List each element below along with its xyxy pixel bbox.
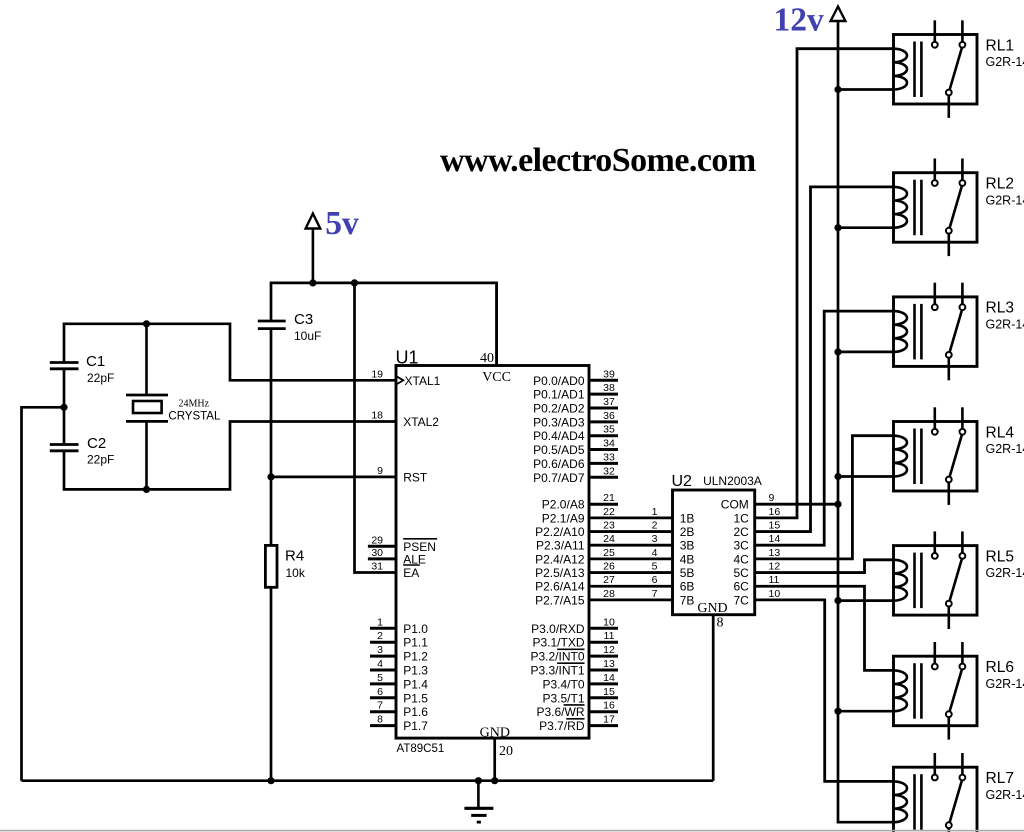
svg-text:P3.0/RXD: P3.0/RXD (531, 622, 585, 636)
svg-text:11: 11 (604, 630, 615, 642)
wire U2 pin 11 (6C) to RL6 coil (755, 586, 894, 670)
wire P2.1/A9 (pin 22) to U2 pin 1 (589, 516, 673, 519)
node ground symbol junction (475, 777, 482, 784)
svg-text:P3.3/INT1: P3.3/INT1 (530, 664, 584, 678)
svg-text:P3.5/T1: P3.5/T1 (542, 691, 584, 705)
faint bottom border line (0, 830, 1024, 832)
svg-text:P3.7/RD: P3.7/RD (539, 719, 585, 733)
svg-text:10: 10 (769, 588, 781, 600)
svg-text:16: 16 (603, 700, 615, 712)
svg-text:3C: 3C (733, 539, 749, 553)
svg-text:5C: 5C (733, 566, 749, 580)
svg-text:13: 13 (769, 547, 781, 559)
svg-text:2: 2 (652, 520, 658, 532)
crystal X1 24MHz (126, 324, 168, 490)
svg-text:4: 4 (652, 547, 658, 559)
wire P2.7/A15 (pin 28) to U2 pin 7 (589, 598, 673, 601)
svg-text:2B: 2B (680, 525, 695, 539)
node crystal top junction (143, 320, 150, 327)
svg-text:24MHz: 24MHz (179, 398, 210, 409)
svg-text:www.electroSome.com: www.electroSome.com (440, 142, 756, 179)
svg-text:39: 39 (603, 368, 615, 380)
svg-text:P0.5/AD5: P0.5/AD5 (533, 443, 585, 457)
svg-text:P2.2/A10: P2.2/A10 (535, 525, 585, 539)
pin P0.7/AD7 (pin 32) (589, 476, 618, 479)
svg-text:P0.6/AD6: P0.6/AD6 (533, 457, 585, 471)
svg-text:10uF: 10uF (294, 329, 321, 343)
svg-text:P2.4/A12: P2.4/A12 (535, 552, 585, 566)
svg-text:3: 3 (377, 644, 383, 656)
wire 12v bus to RL5 coil bottom (838, 599, 894, 602)
svg-text:12: 12 (603, 644, 615, 656)
svg-text:RL2: RL2 (986, 176, 1014, 193)
svg-text:RL5: RL5 (986, 548, 1014, 565)
svg-text:26: 26 (603, 561, 615, 573)
wire U2 pin 16 (1C) to RL1 coil (755, 49, 894, 518)
svg-text:RL6: RL6 (986, 659, 1014, 676)
node crystal bottom junction (143, 486, 150, 493)
svg-text:5: 5 (377, 672, 383, 684)
pin 20 GND wire (493, 738, 496, 781)
wire 5v rail (271, 283, 497, 366)
svg-text:U1: U1 (396, 348, 419, 368)
relay RL2 G2R-14 (894, 159, 978, 257)
wire 12v bus to RL1 coil bottom (838, 88, 894, 91)
svg-text:P0.7/AD7: P0.7/AD7 (533, 471, 585, 485)
resistor R4 (265, 545, 277, 587)
svg-text:11: 11 (769, 574, 780, 586)
pin P3.5/T1 (pin 15) (589, 696, 618, 699)
wire C1 to C2 (63, 369, 66, 445)
relay RL5 G2R-14 (894, 531, 978, 629)
capacitor C1 (50, 363, 79, 369)
wire 12v bus (838, 21, 894, 822)
relay RL1 G2R-14 (893, 20, 977, 118)
wire P2.6/A14 (pin 27) to U2 pin 6 (589, 585, 673, 588)
svg-text:VCC: VCC (482, 370, 511, 385)
svg-text:30: 30 (371, 547, 383, 559)
svg-text:P3.4/T0: P3.4/T0 (542, 677, 584, 691)
svg-text:G2R-14: G2R-14 (986, 566, 1024, 580)
pin P1.1 (pin 2) (370, 641, 396, 644)
svg-text:P0.4/AD4: P0.4/AD4 (533, 429, 585, 443)
wire crystal top rail (64, 324, 396, 381)
svg-text:G2R-14: G2R-14 (986, 55, 1024, 69)
svg-text:C2: C2 (87, 435, 106, 452)
svg-text:2: 2 (377, 630, 383, 642)
pin COM (pin 9) wire to 12v bus (755, 503, 838, 506)
wire R4 to ground rail (270, 587, 273, 780)
svg-text:P0.0/AD0: P0.0/AD0 (533, 374, 585, 388)
pin P1.2 (pin 3) (370, 655, 396, 658)
svg-text:P2.5/A13: P2.5/A13 (535, 566, 585, 580)
pin P1.5 (pin 6) (370, 696, 396, 699)
relay RL4 G2R-14 (894, 407, 978, 505)
pin P1.0 (pin 1) (370, 627, 396, 630)
relay RL7 G2R-14 (894, 753, 978, 832)
svg-text:28: 28 (603, 588, 615, 600)
svg-text:P1.7: P1.7 (403, 719, 428, 733)
svg-text:EA: EA (403, 566, 419, 580)
svg-text:U2: U2 (672, 473, 693, 490)
svg-text:8: 8 (377, 714, 383, 726)
wire P2.2/A10 (pin 23) to U2 pin 2 (589, 530, 673, 533)
svg-text:7: 7 (652, 588, 658, 600)
svg-text:P3.1/TXD: P3.1/TXD (532, 636, 584, 650)
svg-text:3: 3 (652, 533, 658, 545)
wire U2 pin 13 (4C) to RL4 coil (755, 436, 894, 559)
svg-text:2C: 2C (733, 525, 749, 539)
svg-text:8: 8 (717, 616, 724, 631)
pin P3.2/INT0 (pin 12) (589, 655, 618, 658)
svg-text:6C: 6C (733, 580, 749, 594)
svg-text:24: 24 (603, 533, 615, 545)
svg-text:31: 31 (371, 561, 383, 573)
svg-text:7C: 7C (733, 593, 749, 607)
svg-text:P1.1: P1.1 (403, 636, 428, 650)
svg-text:14: 14 (769, 533, 781, 545)
svg-text:20: 20 (499, 744, 513, 759)
pin P1.7 (pin 8) (370, 724, 396, 727)
svg-text:13: 13 (603, 658, 615, 670)
pin 40 VCC wire (495, 283, 498, 366)
svg-text:P0.3/AD3: P0.3/AD3 (533, 415, 585, 429)
svg-text:36: 36 (603, 410, 615, 422)
pin P3.0/RXD (pin 10) (589, 627, 618, 630)
svg-text:RL3: RL3 (986, 300, 1014, 317)
svg-text:14: 14 (603, 672, 615, 684)
svg-text:5B: 5B (680, 566, 695, 580)
svg-text:34: 34 (603, 438, 615, 450)
power symbol 12v (831, 7, 846, 22)
svg-text:G2R-14: G2R-14 (986, 677, 1024, 691)
svg-text:P2.7/A15: P2.7/A15 (535, 593, 585, 607)
svg-text:12: 12 (769, 561, 781, 573)
pin P1.6 (pin 7) (370, 710, 396, 713)
svg-text:P1.4: P1.4 (403, 677, 428, 691)
svg-text:1: 1 (377, 616, 383, 628)
svg-text:6B: 6B (680, 580, 695, 594)
svg-text:7: 7 (377, 700, 383, 712)
capacitor C2 (50, 445, 79, 451)
svg-text:33: 33 (603, 451, 615, 463)
svg-text:P3.2/INT0: P3.2/INT0 (530, 650, 584, 664)
pin P0.1/AD1 (pin 38) (589, 393, 618, 396)
svg-text:G2R-14: G2R-14 (986, 442, 1024, 456)
wire crystal bottom rail (64, 422, 396, 490)
node RST junction (267, 473, 274, 480)
svg-text:G2R-14: G2R-14 (986, 193, 1024, 207)
wire 12v bus to RL6 coil bottom (838, 710, 894, 713)
wire 12v bus to RL2 coil bottom (838, 226, 894, 229)
relay RL6 G2R-14 (894, 642, 978, 740)
wire C3 to RST junction to R4 (270, 329, 273, 546)
capacitor C3 (258, 321, 286, 329)
svg-text:4C: 4C (733, 552, 749, 566)
svg-text:27: 27 (603, 574, 615, 586)
svg-text:P0.2/AD2: P0.2/AD2 (533, 402, 585, 416)
svg-text:G2R-14: G2R-14 (986, 788, 1024, 802)
svg-text:23: 23 (603, 520, 615, 532)
pin PSEN (368, 545, 396, 548)
svg-text:32: 32 (603, 465, 615, 477)
svg-text:P2.3/A11: P2.3/A11 (536, 539, 585, 553)
svg-text:XTAL1: XTAL1 (405, 374, 441, 388)
relay RL3 G2R-14 (894, 283, 978, 381)
node U1 GND junction (491, 777, 498, 784)
svg-text:RL4: RL4 (986, 424, 1015, 441)
svg-text:22pF: 22pF (87, 453, 114, 467)
svg-text:GND: GND (697, 601, 727, 616)
svg-text:9: 9 (769, 492, 775, 504)
power symbol 5v (306, 214, 321, 283)
svg-text:1B: 1B (680, 511, 695, 525)
svg-text:10k: 10k (286, 566, 306, 580)
svg-text:1: 1 (652, 506, 658, 518)
wire 5v to EA pin (355, 283, 397, 573)
svg-text:38: 38 (603, 382, 615, 394)
svg-text:CRYSTAL: CRYSTAL (168, 411, 221, 423)
svg-text:P2.6/A14: P2.6/A14 (535, 580, 585, 594)
svg-text:R4: R4 (285, 548, 304, 565)
svg-text:16: 16 (769, 506, 781, 518)
pin ALE (368, 557, 396, 560)
node EA drop junction (351, 279, 358, 286)
svg-text:P0.1/AD1: P0.1/AD1 (533, 388, 585, 402)
pin P0.2/AD2 (pin 37) (589, 407, 618, 410)
ic U2 ULN2003A body (673, 490, 755, 615)
node COM 12v bus junction (834, 501, 841, 508)
node C1 C2 midpoint (60, 404, 67, 411)
svg-text:RL1: RL1 (986, 37, 1014, 54)
svg-text:4: 4 (377, 658, 383, 670)
svg-text:ULN2003A: ULN2003A (703, 474, 762, 488)
svg-text:12v: 12v (773, 2, 824, 39)
svg-text:P1.5: P1.5 (403, 691, 428, 705)
node 5v arrow junction (309, 279, 316, 286)
svg-text:COM: COM (721, 498, 749, 512)
wire 12v bus to RL4 coil bottom (838, 475, 894, 478)
svg-text:19: 19 (371, 368, 383, 380)
pin P1.3 (pin 4) (370, 669, 396, 672)
pin P3.1/TXD (pin 11) (589, 641, 618, 644)
svg-text:C3: C3 (294, 311, 313, 328)
pin 8 GND of U2 (712, 615, 715, 781)
pin P0.0/AD0 (pin 39) (589, 379, 618, 382)
svg-text:9: 9 (377, 465, 383, 477)
svg-text:7B: 7B (680, 593, 695, 607)
svg-text:RST: RST (403, 470, 428, 484)
svg-text:P1.3: P1.3 (403, 664, 428, 678)
svg-text:5: 5 (652, 561, 658, 573)
svg-text:1C: 1C (733, 511, 749, 525)
svg-text:AT89C51: AT89C51 (397, 743, 445, 755)
pin P3.4/T0 (pin 14) (589, 682, 618, 685)
svg-text:P1.6: P1.6 (403, 705, 428, 719)
svg-text:10: 10 (603, 616, 615, 628)
pin P0.6/AD6 (pin 33) (589, 462, 618, 465)
wire U2 pin 15 (2C) to RL2 coil (755, 187, 894, 532)
wire RST (271, 476, 396, 479)
svg-text:6: 6 (652, 574, 658, 586)
pin P3.7/RD (pin 17) (589, 724, 618, 727)
svg-text:40: 40 (480, 351, 494, 366)
pin P3.6/WR (pin 16) (589, 710, 618, 713)
wire U2 pin 10 (7C) to RL7 coil (755, 600, 894, 782)
svg-text:P3.6/WR: P3.6/WR (536, 705, 584, 719)
svg-text:4B: 4B (680, 552, 695, 566)
svg-text:P1.0: P1.0 (403, 622, 428, 636)
svg-text:22: 22 (603, 506, 615, 518)
wire P2.3/A11 (pin 24) to U2 pin 3 (589, 544, 673, 547)
wire 12v bus to RL3 coil bottom (838, 351, 894, 354)
wire U2 pin 12 (5C) to RL5 coil (755, 560, 894, 573)
svg-text:5v: 5v (325, 205, 359, 242)
svg-text:RL7: RL7 (986, 770, 1014, 787)
svg-text:35: 35 (603, 424, 615, 436)
pin P1.4 (pin 5) (370, 682, 396, 685)
svg-text:22pF: 22pF (87, 371, 114, 385)
ground symbol (464, 781, 493, 822)
svg-text:C1: C1 (86, 353, 105, 370)
svg-text:P2.1/A9: P2.1/A9 (542, 511, 585, 525)
svg-text:GND: GND (480, 725, 510, 740)
pin XTAL1 with clock arrow (397, 376, 404, 384)
wire U2 pin 14 (3C) to RL3 coil (755, 311, 894, 545)
wire ground rail (22, 779, 714, 782)
svg-text:3B: 3B (680, 539, 695, 553)
ic U1 AT89C51 body (396, 366, 589, 739)
wire P2.4/A12 (pin 25) to U2 pin 4 (589, 557, 673, 560)
svg-text:XTAL2: XTAL2 (403, 415, 439, 429)
wire P2.5/A13 (pin 26) to U2 pin 5 (589, 571, 673, 574)
wire midpoint to left ground drop (22, 407, 65, 780)
svg-text:6: 6 (377, 686, 383, 698)
pin P3.3/INT1 (pin 13) (589, 669, 618, 672)
node R4 ground junction (267, 777, 274, 784)
svg-text:15: 15 (769, 520, 781, 532)
svg-text:29: 29 (371, 534, 383, 546)
svg-text:25: 25 (603, 547, 615, 559)
svg-text:15: 15 (603, 686, 615, 698)
svg-text:17: 17 (603, 714, 615, 726)
pin P0.4/AD4 (pin 35) (589, 434, 618, 437)
svg-text:G2R-14: G2R-14 (986, 318, 1024, 332)
pin P0.5/AD5 (pin 34) (589, 448, 618, 451)
pin P0.3/AD3 (pin 36) (589, 420, 618, 423)
svg-text:P2.0/A8: P2.0/A8 (542, 498, 585, 512)
svg-text:21: 21 (603, 492, 615, 504)
pin P2.0/A8 (pin 21) (589, 503, 618, 506)
svg-text:P1.2: P1.2 (403, 650, 428, 664)
svg-text:18: 18 (371, 410, 383, 422)
svg-text:37: 37 (603, 396, 615, 408)
